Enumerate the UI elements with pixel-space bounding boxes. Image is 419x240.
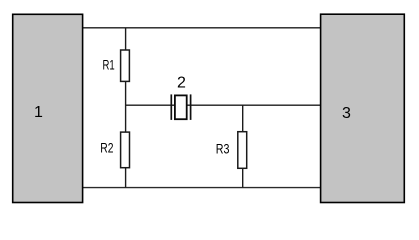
wire bottom (port 1 to port 3) <box>83 187 321 189</box>
label 2 <box>177 74 186 91</box>
svg-text:1: 1 <box>34 104 43 121</box>
crystal 2 <box>171 94 190 120</box>
label R3 <box>216 141 230 157</box>
svg-text:2: 2 <box>177 74 186 91</box>
wire vertical node B (through R3) <box>242 105 244 187</box>
svg-text:R3: R3 <box>216 141 230 157</box>
resistor R3 <box>238 132 247 169</box>
port block 3 <box>321 14 405 202</box>
wire top (port 1 to port 3) <box>83 27 321 29</box>
resistor R1 <box>121 50 130 81</box>
svg-text:3: 3 <box>342 105 351 122</box>
wire middle (node A to port 3, through crystal) <box>126 104 321 106</box>
port block 1 <box>13 14 83 202</box>
wire vertical node A (through R1 and R2) <box>125 28 127 188</box>
label R1 <box>103 56 115 72</box>
svg-text:R1: R1 <box>103 56 115 72</box>
label R2 <box>100 139 113 155</box>
svg-text:R2: R2 <box>100 139 113 155</box>
label 1 <box>34 104 43 121</box>
resistor R2 <box>121 132 130 168</box>
label 3 <box>342 105 351 122</box>
